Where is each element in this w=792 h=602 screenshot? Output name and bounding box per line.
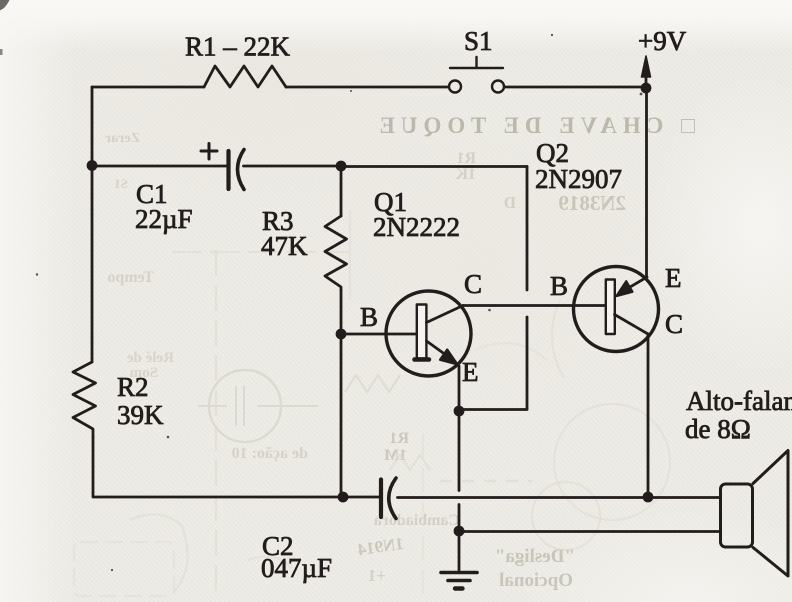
scanner edge artifacts	[0, 0, 10, 11]
C1 plus sign	[201, 144, 217, 160]
svg-text:047µF: 047µF	[261, 553, 332, 583]
wire jog to emitter node	[461, 408, 527, 411]
GHOST BLEED-THROUGH LAYER	[383, 113, 695, 139]
ground	[441, 573, 477, 589]
transistor Q2 emitter arrow	[617, 281, 633, 296]
node Q1 base junction	[336, 329, 347, 340]
wire C1 to node	[244, 165, 341, 168]
node ground junction	[454, 526, 465, 537]
wire Q1 collector to Q2 base	[463, 304, 605, 307]
wire node to corner	[341, 165, 527, 168]
wire Q2 collector rail down	[647, 334, 650, 497]
svg-text:47K: 47K	[261, 231, 308, 261]
resistor R2	[73, 362, 96, 437]
transistor Q2 base bar	[606, 280, 615, 335]
transistor Q1 base bar	[417, 305, 427, 359]
transistor Q2 emitter lead	[620, 277, 647, 293]
switch S1	[449, 57, 504, 93]
node C2 left junction	[338, 492, 349, 503]
wire left rail	[91, 87, 94, 362]
capacitor C2	[381, 478, 396, 519]
resistor R1	[204, 66, 286, 87]
+9V arrow	[642, 56, 651, 83]
svg-text:de 8Ω: de 8Ω	[685, 414, 751, 444]
paper specks	[36, 34, 643, 571]
wire R3 bottom lead	[340, 290, 343, 333]
node Q1 emitter junction	[454, 406, 465, 417]
resistor R3	[325, 216, 347, 290]
transistor Q2 collector lead	[615, 315, 649, 335]
transistor Q1 collector lead	[427, 306, 464, 323]
svg-text:Alto-falante: Alto-falante	[686, 386, 792, 416]
svg-text:B: B	[360, 302, 378, 332]
transistor Q1 emitter arrow	[440, 350, 458, 365]
svg-text:R1 – 22K: R1 – 22K	[185, 32, 291, 62]
wire Q1 emitter down	[458, 366, 461, 407]
wire R2 to bottom rail	[92, 437, 95, 496]
wire top-left horizontal	[92, 86, 204, 89]
wire emitter node down (crossover gap at bottom rail)	[458, 413, 461, 491]
speaker frame	[721, 484, 753, 547]
wire +9V rail down to Q2 emitter	[645, 93, 648, 277]
svg-text:S1: S1	[464, 26, 493, 56]
transistor Q2 circle	[574, 267, 659, 352]
svg-text:E: E	[665, 263, 682, 293]
svg-text:E: E	[462, 357, 479, 387]
wire to C1	[92, 165, 228, 168]
wire S1 to +9V node	[505, 86, 647, 89]
wire bottom rail right	[398, 496, 721, 499]
svg-text:B: B	[550, 271, 568, 301]
svg-text:C: C	[665, 309, 683, 339]
wire base node down to bottom rail	[340, 334, 343, 497]
wire R3 top lead	[340, 166, 343, 216]
svg-text:R2: R2	[117, 372, 149, 402]
node C1 left junction	[87, 160, 98, 171]
speaker cone	[753, 451, 788, 577]
svg-text:2N2907: 2N2907	[535, 164, 622, 194]
node +9V junction	[641, 83, 652, 94]
svg-text:39K: 39K	[117, 400, 164, 430]
wire R1 to S1	[286, 86, 448, 89]
wire Q1 base	[341, 333, 416, 336]
svg-text:2N2222: 2N2222	[373, 212, 460, 242]
wire crossover lower segment down to emitter jog	[526, 317, 529, 409]
svg-text:C: C	[464, 269, 482, 299]
wire speaker bottom	[459, 530, 720, 533]
wire bottom rail left	[93, 496, 380, 499]
capacitor C1	[229, 150, 245, 190]
wire corner down (upper segment, crossover gap)	[526, 167, 529, 291]
node R3 top junction	[336, 161, 347, 172]
node speaker top junction	[643, 492, 654, 503]
transistor Q1 emitter lead	[427, 341, 456, 362]
wire crossover below to ground node	[458, 505, 461, 571]
svg-text:22µF: 22µF	[135, 204, 193, 234]
transistor Q1 circle	[386, 291, 471, 376]
svg-text:+9V: +9V	[638, 26, 687, 56]
